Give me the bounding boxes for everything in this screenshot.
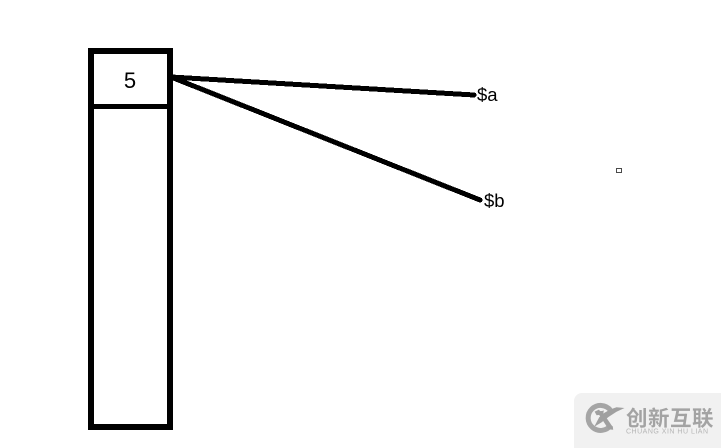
- watermark logo X swoosh stroke: [594, 407, 624, 427]
- watermark panel background: [574, 393, 721, 448]
- watermark chinese character hu (互): [671, 408, 691, 427]
- variable box (vertical rectangle): [88, 48, 173, 430]
- label $b: [484, 190, 505, 212]
- watermark logo X nw-se stroke: [597, 411, 613, 430]
- watermark chinese character xin (新): [649, 407, 669, 427]
- watermark logo X nw fork cap: [595, 410, 604, 416]
- small cursor square: [616, 168, 622, 173]
- wire line to $a: [171, 77, 474, 95]
- label $a: [477, 84, 498, 106]
- watermark logo ring (C): [588, 405, 611, 430]
- wire line to $b: [171, 77, 480, 200]
- watermark chinese character lian (联): [693, 408, 713, 428]
- svg-text:CHUANG XIN HU LIAN: CHUANG XIN HU LIAN: [626, 429, 709, 436]
- divider between value cell and rest of box: [93, 104, 167, 109]
- value 5: [93, 68, 167, 98]
- watermark chinese character chuang (创): [626, 407, 646, 427]
